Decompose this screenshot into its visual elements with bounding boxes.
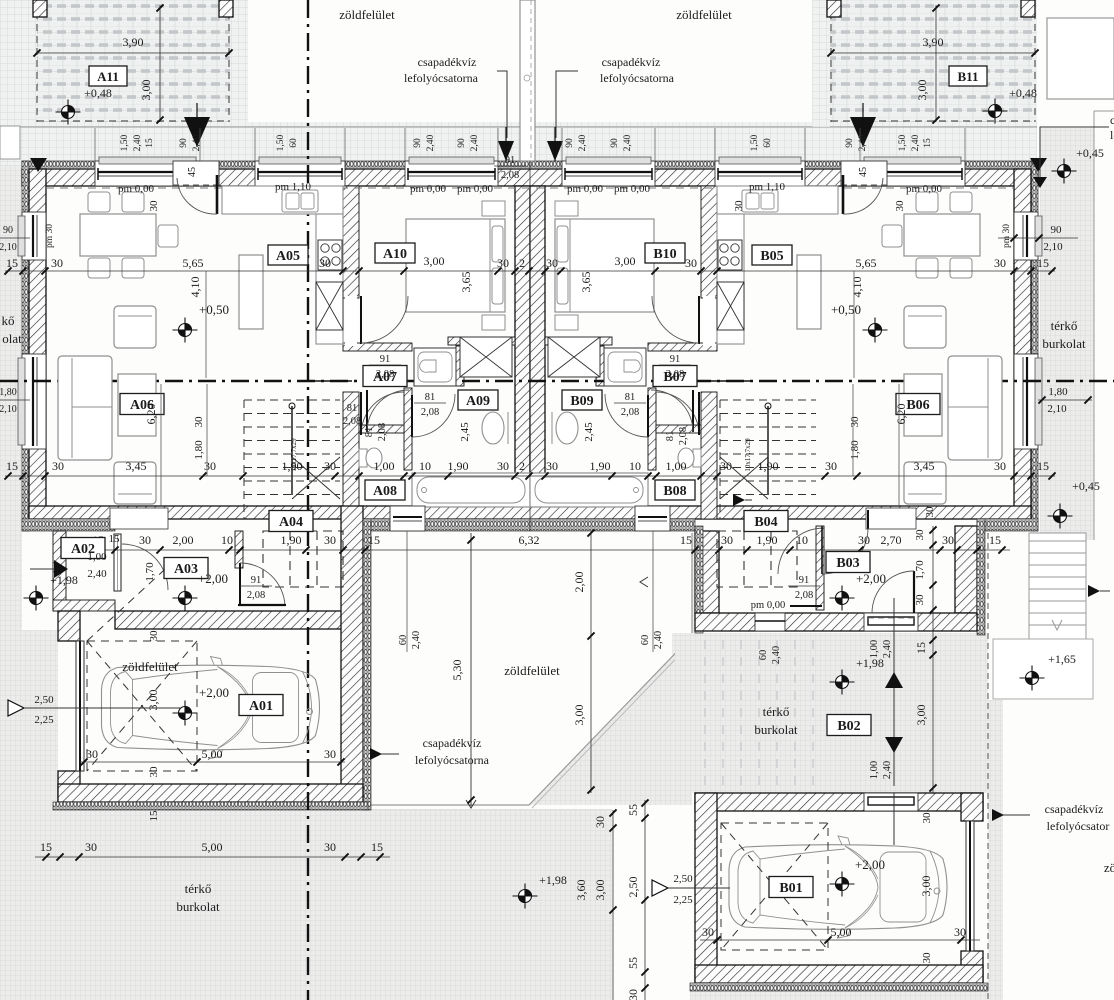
window B04 stairs in slab bottom wall xyxy=(635,506,670,531)
lower block A left wall (A02 porch) xyxy=(53,531,66,611)
garage A01 right wall xyxy=(341,506,363,802)
terko paving wedge right of zoldfelulet pentagon xyxy=(529,636,692,805)
svg-text:30: 30 xyxy=(497,459,509,473)
wall right of stairs A04 xyxy=(343,392,359,519)
svg-text:15: 15 xyxy=(40,840,52,854)
svg-text:90: 90 xyxy=(413,138,423,148)
coffee table A06 xyxy=(118,374,156,436)
window A10 bedroom (top wall) xyxy=(405,161,498,186)
B03 door to terrace xyxy=(864,613,918,631)
leader csapadekviz middle-left xyxy=(370,753,399,755)
svg-text:csapadékvíz: csapadékvíz xyxy=(1045,802,1104,816)
nightstand A10 bottom xyxy=(555,315,578,330)
svg-text:30: 30 xyxy=(921,952,933,964)
terrace A11 dim 3,90 xyxy=(37,52,229,54)
svg-text:3,65: 3,65 xyxy=(579,272,593,293)
door stairs A04 to hall A07 xyxy=(361,392,404,435)
room label B04 xyxy=(744,511,788,532)
svg-text:15: 15 xyxy=(1037,256,1049,270)
armchair A06 xyxy=(114,306,156,348)
bathtub A09 xyxy=(412,473,530,507)
svg-text:90: 90 xyxy=(179,138,189,148)
svg-text:30: 30 xyxy=(546,256,558,270)
neighbour terrace top-left white block xyxy=(0,126,20,159)
svg-text:térkő: térkő xyxy=(763,704,790,719)
svg-text:30: 30 xyxy=(858,533,870,547)
room label A05 xyxy=(268,245,308,265)
svg-text:6,20: 6,20 xyxy=(144,404,158,425)
svg-text:30: 30 xyxy=(148,200,160,212)
svg-text:15: 15 xyxy=(680,533,692,547)
apron grid band above building xyxy=(0,122,1037,165)
svg-text:6,20: 6,20 xyxy=(894,404,908,425)
svg-text:81: 81 xyxy=(364,427,375,438)
svg-text:15: 15 xyxy=(148,810,160,822)
svg-text:2,50: 2,50 xyxy=(673,873,693,885)
svg-text:2,10: 2,10 xyxy=(0,404,17,415)
small V arrow bottom middle zoldfelulet xyxy=(466,800,476,808)
svg-text:+0,50: +0,50 xyxy=(199,302,229,317)
garage B01 door from terrace xyxy=(864,793,918,811)
lower block B bottom wall xyxy=(695,613,977,631)
svg-text:2,08: 2,08 xyxy=(376,369,394,380)
svg-text:2,70: 2,70 xyxy=(881,533,902,547)
svg-text:30: 30 xyxy=(954,925,966,939)
svg-text:2,40: 2,40 xyxy=(411,631,422,649)
svg-text:lefolyócsatorna: lefolyócsatorna xyxy=(600,71,675,85)
svg-text:30: 30 xyxy=(924,506,936,518)
svg-text:1,80: 1,80 xyxy=(193,440,205,460)
svg-text:A10: A10 xyxy=(383,247,407,262)
svg-text:térkő: térkő xyxy=(185,881,212,896)
bottom-left terko burkolat paving boundary xyxy=(0,809,612,811)
room label A04 xyxy=(269,511,313,532)
garage A01 bottom wall xyxy=(58,784,363,802)
room label B10 xyxy=(645,243,685,263)
driveway open triangle B01 xyxy=(652,880,668,896)
gutter arrow right edge B01 xyxy=(1088,585,1100,597)
svg-text:B02: B02 xyxy=(837,719,860,734)
interior dim chain lines A06/B06 xyxy=(205,271,207,378)
wall between A03 and A04 stub xyxy=(235,531,243,568)
wardrobe A10 (X box) xyxy=(460,337,512,377)
svg-text:4,10: 4,10 xyxy=(850,277,864,298)
svg-text:3,90: 3,90 xyxy=(123,35,144,49)
section line vertical x=308 xyxy=(307,0,309,1000)
svg-text:3,00: 3,00 xyxy=(919,876,933,897)
svg-text:1,90: 1,90 xyxy=(281,533,302,547)
entry door unit B xyxy=(841,161,887,186)
wall stub beside washing machine A07 xyxy=(456,346,464,386)
svg-text:lefolyócsator: lefolyócsator xyxy=(1047,819,1110,833)
svg-text:10x17,7x29: 10x17,7x29 xyxy=(744,438,752,472)
svg-text:15: 15 xyxy=(989,533,1001,547)
vertical dim 5,30 pentagon xyxy=(467,536,474,543)
left edge window dims xyxy=(0,237,30,239)
svg-text:+1,65: +1,65 xyxy=(1048,652,1076,666)
svg-text:91: 91 xyxy=(670,354,681,365)
svg-text:A05: A05 xyxy=(276,249,300,264)
svg-text:15: 15 xyxy=(371,840,383,854)
svg-text:B03: B03 xyxy=(836,556,859,571)
door A10 (leaf + swing arc) xyxy=(345,296,357,346)
svg-text:2,50: 2,50 xyxy=(34,694,54,706)
svg-text:2,08: 2,08 xyxy=(247,590,265,601)
svg-text:zöldfelület: zöldfelület xyxy=(676,7,732,22)
window B06 east large xyxy=(1014,354,1038,449)
small open arrow left of pentagon xyxy=(640,577,648,587)
vertical dims B02 right xyxy=(932,636,934,793)
A02 entry arrow xyxy=(54,560,68,578)
svg-text:30: 30 xyxy=(193,416,205,428)
svg-text:lefolyócsatorna: lefolyócsatorna xyxy=(404,71,479,85)
room label A01 xyxy=(239,695,283,716)
svg-text:3,60: 3,60 xyxy=(574,880,588,901)
svg-text:4,10: 4,10 xyxy=(188,277,202,298)
svg-text:10: 10 xyxy=(221,533,233,547)
svg-text:2,45: 2,45 xyxy=(459,422,471,442)
svg-text:5,00: 5,00 xyxy=(202,840,223,854)
svg-text:2,40: 2,40 xyxy=(882,761,893,779)
svg-text:5,00: 5,00 xyxy=(202,747,223,761)
grid strip left of B11 terrace xyxy=(812,0,830,127)
svg-text:zöldfelület: zöldfelület xyxy=(122,659,178,674)
toilet A08 xyxy=(359,449,367,467)
svg-text:2,10: 2,10 xyxy=(0,242,17,253)
svg-text:30: 30 xyxy=(593,816,607,828)
svg-text:90: 90 xyxy=(565,138,575,148)
sofa A06 xyxy=(58,356,112,460)
svg-text:90: 90 xyxy=(845,138,855,148)
svg-text:5,65: 5,65 xyxy=(856,256,877,270)
svg-text:30: 30 xyxy=(86,747,98,761)
bathtub A09 xyxy=(530,473,648,507)
kitchen tall cabinet A05 (X) xyxy=(717,282,744,330)
wall left of stairs B04 xyxy=(701,392,717,519)
A03 bottom / garage A01 top wall xyxy=(115,611,363,629)
garage B01 left wall xyxy=(695,793,717,983)
svg-text:1,00: 1,00 xyxy=(374,459,395,473)
svg-text:burkolat: burkolat xyxy=(1042,336,1086,351)
svg-text:le: le xyxy=(1110,128,1114,142)
door stairs B04 to hall B07 xyxy=(656,392,699,435)
svg-text:2,08: 2,08 xyxy=(421,407,439,418)
wall stub beside washing machine B07 xyxy=(596,346,604,386)
car in garage A01 xyxy=(102,657,320,759)
svg-text:+0,45: +0,45 xyxy=(1072,479,1100,493)
armchair2 A06 xyxy=(904,462,946,504)
leader csapadekviz B xyxy=(556,71,578,138)
svg-text:3,65: 3,65 xyxy=(459,272,473,293)
svg-text:1,70: 1,70 xyxy=(144,562,156,582)
svg-text:3,45: 3,45 xyxy=(126,459,147,473)
kitchen counter A05 top xyxy=(717,186,838,214)
svg-text:90: 90 xyxy=(457,138,467,148)
svg-text:2,40: 2,40 xyxy=(87,568,107,580)
zoldfelulet grid area top-left corner strip xyxy=(0,0,37,165)
svg-text:2,00: 2,00 xyxy=(572,572,586,593)
svg-text:2,50: 2,50 xyxy=(626,877,640,898)
interior wall kitchen B05 / bedroom B10 xyxy=(701,186,717,298)
svg-text:2,08: 2,08 xyxy=(377,423,388,441)
section line horizontal y=381 xyxy=(0,380,1114,382)
svg-text:30: 30 xyxy=(994,256,1006,270)
door A03 to stairs xyxy=(239,563,241,606)
svg-text:15: 15 xyxy=(1037,459,1049,473)
svg-text:30: 30 xyxy=(914,529,926,541)
svg-text:30: 30 xyxy=(894,200,906,212)
kitchen tall cabinet A05 (X) xyxy=(316,282,343,330)
garage B01 bottom wall xyxy=(695,965,983,983)
garage B01 dashed diagonals box xyxy=(721,823,828,950)
svg-text:30: 30 xyxy=(914,594,926,606)
svg-text:térkő: térkő xyxy=(1051,318,1078,333)
staircase B04 below-slab dashed outline xyxy=(717,531,797,587)
svg-text:1,50: 1,50 xyxy=(898,134,908,151)
svg-text:10x17,7x29: 10x17,7x29 xyxy=(290,438,298,472)
svg-text:B11: B11 xyxy=(958,69,979,84)
svg-text:csapadékvíz: csapadékvíz xyxy=(423,736,482,750)
B02 walk arrows xyxy=(893,598,895,646)
driveway open triangle A01 xyxy=(8,700,24,716)
dim row R3 y=550 xyxy=(88,549,1010,551)
svg-text:+1,98: +1,98 xyxy=(50,573,78,587)
window A04 stairs in slab bottom wall xyxy=(390,506,425,531)
terrace B11 dashed boundary xyxy=(831,0,1035,122)
kitchen counter A05 right + stove xyxy=(717,214,744,344)
dim line 2,00/3,00 vertical middle xyxy=(590,533,592,636)
door A07 to A08 xyxy=(366,390,368,432)
svg-text:91: 91 xyxy=(505,155,516,166)
window B06 living (top wall) xyxy=(860,161,965,186)
svg-text:90: 90 xyxy=(610,138,620,148)
svg-text:3,00: 3,00 xyxy=(615,254,636,268)
svg-text:2,40: 2,40 xyxy=(426,134,436,151)
svg-text:+0,45: +0,45 xyxy=(1076,146,1104,160)
room label B02 xyxy=(827,715,871,736)
car in garage B01 xyxy=(729,836,947,938)
washbasin A09 xyxy=(556,412,578,444)
party wall between unit A and B xyxy=(515,186,530,506)
garage B01 vehicle door (right side) xyxy=(966,821,974,951)
svg-text:B08: B08 xyxy=(663,484,686,499)
svg-text:2,40: 2,40 xyxy=(911,134,921,151)
dining table A06 xyxy=(904,214,980,256)
dim row garage A01 y=762 xyxy=(80,761,345,763)
zoldfelulet pentagon boundary xyxy=(371,533,692,805)
terrace A11 tiled deck xyxy=(37,0,230,122)
svg-text:30: 30 xyxy=(324,840,336,854)
nightstand A10 bottom xyxy=(482,315,505,330)
corner gutter arrow right xyxy=(1030,158,1047,172)
svg-text:kő: kő xyxy=(2,313,15,328)
room label B05 xyxy=(752,245,792,265)
svg-text:B06: B06 xyxy=(906,398,929,413)
terrace B11 tiled deck xyxy=(830,0,1037,122)
svg-text:30: 30 xyxy=(942,533,954,547)
wardrobe A10 (X box) xyxy=(548,337,600,377)
svg-text:pm 0,00: pm 0,00 xyxy=(614,183,651,195)
terrace A11 dashed boundary xyxy=(37,0,229,122)
bed A10 xyxy=(555,219,654,312)
svg-text:pm 0,00: pm 0,00 xyxy=(410,183,447,195)
svg-text:81: 81 xyxy=(665,431,676,442)
staircase A04 treads xyxy=(244,400,340,519)
window B10 bedroom (top wall) xyxy=(562,161,655,186)
svg-text:2,40: 2,40 xyxy=(133,134,143,151)
svg-text:30: 30 xyxy=(994,459,1006,473)
window B06 east small xyxy=(1014,212,1038,260)
svg-text:15: 15 xyxy=(109,533,121,545)
svg-text:30: 30 xyxy=(849,416,861,428)
svg-text:2: 2 xyxy=(519,459,525,473)
svg-text:B09: B09 xyxy=(570,394,593,409)
door A06 to A07 corridor xyxy=(708,380,750,382)
B02 terrace paving xyxy=(675,633,983,793)
room label A11 xyxy=(89,66,127,86)
room label B08 xyxy=(655,480,695,500)
dim row garage B01 y=940 xyxy=(700,939,980,941)
svg-text:30: 30 xyxy=(324,747,336,761)
leader csapadekviz top-right clipped xyxy=(1040,127,1109,177)
downpipe arrow terrace B xyxy=(850,117,876,147)
vertical dim 2,00/3,00 right pentagon xyxy=(590,636,592,793)
unit B mirrored furniture xyxy=(530,186,1002,507)
staircase B04 treads xyxy=(720,400,816,519)
washbasin A09 xyxy=(482,412,504,444)
svg-text:3,00: 3,00 xyxy=(572,705,586,726)
garage A01 door (left side) xyxy=(76,641,84,771)
svg-text:5,00: 5,00 xyxy=(831,925,852,939)
right exterior paving strip xyxy=(1040,128,1094,540)
svg-text:3,00: 3,00 xyxy=(914,705,928,726)
dim row R4 y=857 xyxy=(35,856,390,858)
room label B09 xyxy=(562,390,602,410)
svg-text:91: 91 xyxy=(380,354,391,365)
svg-text:3,90: 3,90 xyxy=(923,35,944,49)
svg-text:2,08: 2,08 xyxy=(666,369,684,380)
svg-text:+2,00: +2,00 xyxy=(855,857,885,872)
lower block B right wall xyxy=(955,526,977,613)
svg-text:1,70: 1,70 xyxy=(914,560,926,580)
kitchen island A05 xyxy=(797,255,821,329)
svg-text:15: 15 xyxy=(6,459,18,473)
room label B01 xyxy=(769,877,813,898)
svg-text:olat: olat xyxy=(2,331,22,346)
staircase A04 below-slab dashed outline xyxy=(263,531,343,587)
svg-text:pm 30: pm 30 xyxy=(45,224,55,248)
main slab left wall xyxy=(22,161,29,531)
svg-text:2,10: 2,10 xyxy=(1047,403,1067,415)
lower block B left wall xyxy=(695,531,719,613)
svg-text:2,40: 2,40 xyxy=(578,134,588,151)
svg-text:+2,00: +2,00 xyxy=(856,571,886,586)
vertical dim bottom middle chain xyxy=(612,810,614,1000)
svg-text:60: 60 xyxy=(758,650,769,661)
exterior stair east of B03 xyxy=(1029,533,1086,639)
B03 window in bottom wall xyxy=(755,613,785,631)
svg-text:3,00: 3,00 xyxy=(424,254,445,268)
armchair A06 xyxy=(904,306,946,348)
downpipe arrow left of pipe xyxy=(498,141,514,161)
svg-text:csapadékvíz: csapadékvíz xyxy=(602,55,661,69)
svg-text:5,65: 5,65 xyxy=(183,256,204,270)
svg-text:pm 0,00: pm 0,00 xyxy=(906,183,943,195)
svg-text:pm 30: pm 30 xyxy=(1002,224,1012,248)
svg-text:2,45: 2,45 xyxy=(583,422,595,442)
room label B11 xyxy=(949,66,987,86)
svg-text:2,25: 2,25 xyxy=(34,714,54,726)
svg-text:45: 45 xyxy=(858,167,869,177)
svg-text:30: 30 xyxy=(85,840,97,854)
room label A10 xyxy=(375,243,415,263)
downpipe arrow right of pipe xyxy=(547,141,563,161)
svg-text:30: 30 xyxy=(733,200,745,212)
svg-text:55: 55 xyxy=(626,804,640,816)
svg-text:1,00: 1,00 xyxy=(869,640,880,658)
svg-text:30: 30 xyxy=(51,256,63,270)
svg-text:+0,48: +0,48 xyxy=(84,86,112,100)
interior wall kitchen A05 / bedroom A10 xyxy=(343,186,359,298)
garage A01 dashed diagonals box xyxy=(87,560,197,771)
svg-text:1,90: 1,90 xyxy=(758,459,779,473)
svg-text:pm 0,00: pm 0,00 xyxy=(118,183,155,195)
gutter arrow right of A01 xyxy=(733,494,745,506)
svg-text:1,90: 1,90 xyxy=(590,459,611,473)
room label B06 xyxy=(896,394,940,415)
door A07 to A08 xyxy=(692,390,694,432)
svg-text:90: 90 xyxy=(1051,224,1063,236)
main slab top wall xyxy=(22,169,1038,186)
terrace B11 corner piers xyxy=(827,0,841,17)
svg-text:1,00: 1,00 xyxy=(87,551,107,563)
eaves dashed line along facade xyxy=(46,187,1014,189)
terrace A11 corner piers xyxy=(33,0,47,17)
svg-text:30: 30 xyxy=(204,459,216,473)
svg-text:3,00: 3,00 xyxy=(915,80,929,101)
kitchen counter A05 right + stove xyxy=(316,214,343,344)
svg-text:81: 81 xyxy=(625,392,636,403)
svg-text:A04: A04 xyxy=(279,515,303,530)
svg-text:2,08: 2,08 xyxy=(678,427,689,445)
main slab bottom insulation (left / middle / right exterior segments) xyxy=(22,519,115,531)
svg-text:3,00: 3,00 xyxy=(593,880,607,901)
svg-text:1,80: 1,80 xyxy=(0,387,17,398)
svg-text:A09: A09 xyxy=(466,394,490,409)
bottom-left terko burkolat paving xyxy=(0,810,612,1000)
door B04 interior arc xyxy=(778,528,824,574)
room label A07 xyxy=(363,366,407,387)
svg-text:30: 30 xyxy=(319,256,331,270)
svg-text:15: 15 xyxy=(145,138,155,148)
svg-text:2,08: 2,08 xyxy=(343,416,361,427)
svg-text:30: 30 xyxy=(721,533,733,547)
nightstand A10 top xyxy=(482,201,505,216)
svg-text:30: 30 xyxy=(324,459,336,473)
svg-text:30: 30 xyxy=(626,989,640,1000)
svg-text:2,08: 2,08 xyxy=(501,170,519,181)
apron tick lines xyxy=(94,128,96,161)
svg-text:A03: A03 xyxy=(174,562,198,577)
toilet A08 xyxy=(693,449,701,467)
svg-text:81: 81 xyxy=(347,403,358,414)
property dashed line right of B02 xyxy=(987,533,989,1000)
svg-text:2,40: 2,40 xyxy=(653,631,664,649)
armchair2 A06 xyxy=(114,462,156,504)
svg-text:2,40: 2,40 xyxy=(623,134,633,151)
svg-text:30: 30 xyxy=(324,533,336,547)
svg-text:B01: B01 xyxy=(779,881,802,896)
